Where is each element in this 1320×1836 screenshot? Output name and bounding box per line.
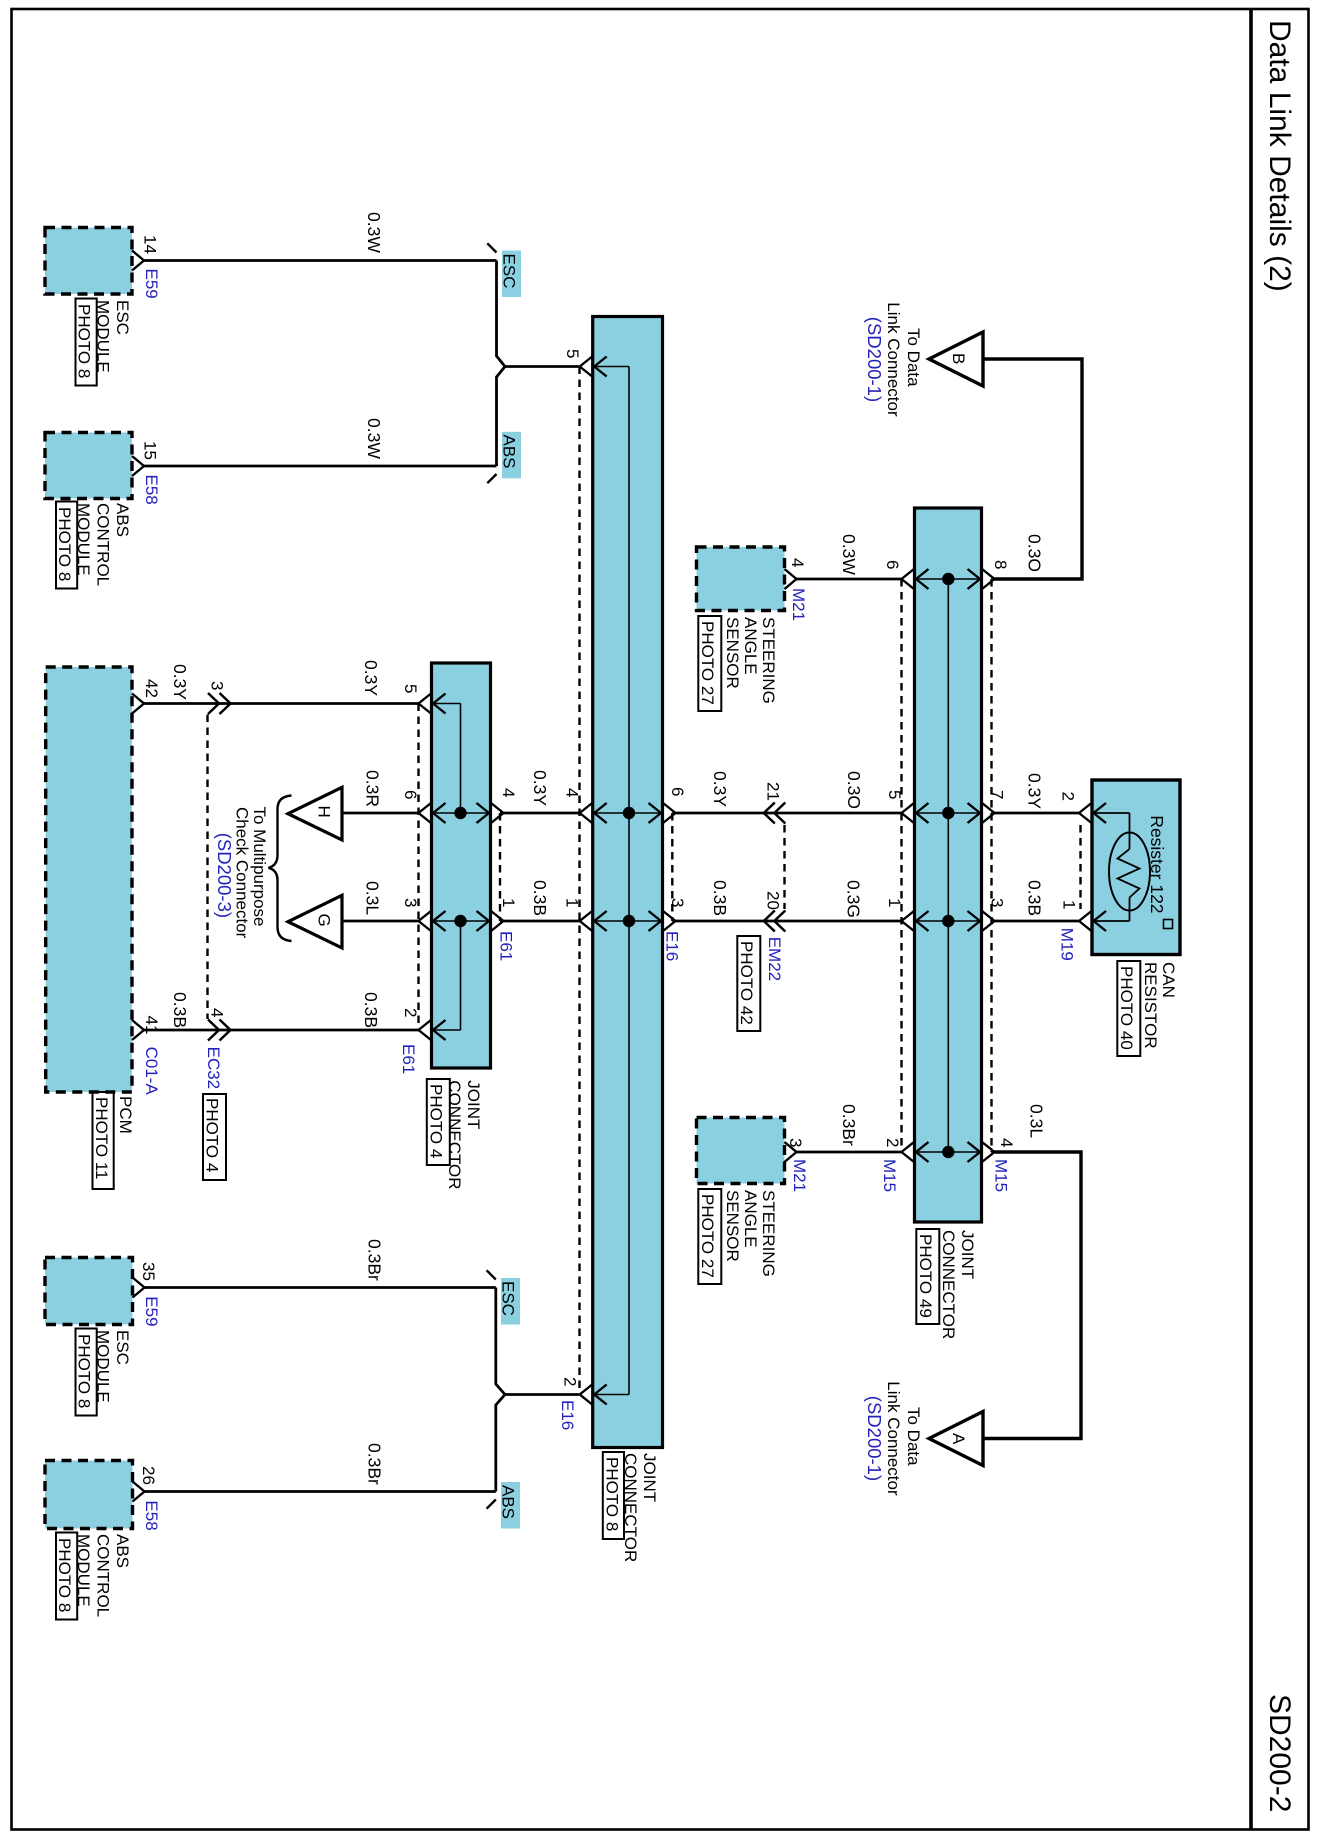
svg-text:ESC: ESC	[113, 1330, 132, 1365]
svg-text:0.3B: 0.3B	[710, 880, 730, 916]
svg-text:H: H	[315, 806, 334, 818]
svg-text:7: 7	[987, 790, 1006, 799]
wire 0.3L G to E61-3	[342, 920, 419, 923]
svg-text:4: 4	[207, 1008, 226, 1017]
pin 26 of E58	[133, 1482, 145, 1492]
svg-text:21: 21	[764, 782, 783, 801]
svg-text:15: 15	[140, 441, 159, 460]
svg-text:CAN: CAN	[1159, 962, 1178, 998]
svg-text:0.3L: 0.3L	[363, 881, 383, 915]
module E58 ABS CONTROL MODULE (bottom) dashed box	[45, 1461, 133, 1529]
svg-text:0.3Y: 0.3Y	[361, 660, 381, 696]
off-page triangle G	[288, 895, 342, 948]
M15 pin 3 terminal (right)	[968, 911, 981, 921]
svg-text:26: 26	[139, 1466, 158, 1485]
svg-text:STEERING: STEERING	[759, 1190, 778, 1277]
svg-text:ESC: ESC	[499, 1281, 518, 1316]
resistor symbol	[1094, 812, 1130, 814]
svg-text:PCM: PCM	[116, 1096, 135, 1134]
svg-text:2: 2	[561, 1377, 580, 1386]
M15 pin 8 terminal (right)	[968, 569, 981, 579]
E16 pin 4 terminal	[580, 803, 593, 813]
joint connector M15 body	[915, 508, 982, 1222]
M19 pin 1 terminal	[1079, 911, 1092, 921]
node label ESC (highlighted, bottom)	[501, 1278, 520, 1325]
svg-text:3: 3	[786, 1138, 805, 1147]
svg-text:CONNECTOR: CONNECTOR	[445, 1080, 464, 1189]
svg-text:ABS: ABS	[113, 1534, 132, 1568]
svg-text:0.3R: 0.3R	[363, 770, 383, 807]
svg-text:0.3Y: 0.3Y	[530, 770, 550, 806]
svg-text:8: 8	[991, 560, 1010, 569]
component M19 CAN RESISTOR box	[1092, 780, 1180, 955]
svg-text:A: A	[949, 1433, 968, 1445]
EC32 housing dashed line	[206, 715, 208, 1020]
module M21 STEERING ANGLE SENSOR (bottom) dashed box	[697, 1118, 785, 1184]
E16 pin 1 terminal	[580, 911, 593, 921]
in-line connector EM22 pin 20	[764, 911, 775, 922]
svg-text:6: 6	[668, 787, 687, 796]
M15 pin 7 terminal (right)	[968, 803, 981, 813]
svg-text:E16: E16	[558, 1400, 577, 1430]
svg-text:41: 41	[142, 1016, 161, 1035]
svg-text:B: B	[949, 353, 968, 364]
E61 pin 2 terminal	[419, 1020, 432, 1030]
pin 14 of E59	[132, 251, 144, 261]
svg-text:PHOTO 4: PHOTO 4	[427, 1084, 446, 1158]
svg-text:M19: M19	[1058, 928, 1077, 961]
svg-text:0.3W: 0.3W	[364, 212, 384, 253]
wire 0.3Y PCM-42 to EC32-3 to E61-5	[144, 702, 419, 705]
E16 pin 2 terminal	[580, 1385, 593, 1395]
node label ABS (highlighted)	[502, 432, 521, 479]
E61 pin 3 terminal	[419, 911, 432, 921]
off-page triangle B to Data Link Connector	[929, 332, 983, 386]
svg-text:PHOTO 4: PHOTO 4	[203, 1098, 222, 1172]
E61 pin 4 terminal (right)	[477, 803, 490, 813]
svg-text:2: 2	[401, 1008, 420, 1017]
svg-text:JOINT: JOINT	[640, 1453, 659, 1502]
pin 42 of PCM	[132, 694, 144, 704]
svg-text:4: 4	[788, 558, 807, 567]
svg-text:E61: E61	[497, 931, 516, 961]
svg-text:Resister 122: Resister 122	[1147, 815, 1167, 913]
svg-text:PHOTO 8: PHOTO 8	[55, 507, 74, 581]
svg-text:SD200-2: SD200-2	[1263, 1694, 1296, 1812]
wire 0.3R H to E61-6	[342, 812, 419, 815]
svg-text:To Multipurpose: To Multipurpose	[250, 807, 269, 927]
wire 0.3L M15-4 down to triangle A	[983, 1152, 1081, 1439]
svg-text:ANGLE: ANGLE	[741, 1190, 760, 1248]
wire 0.3Y E61-4 to E16-4	[500, 812, 580, 815]
svg-text:SENSOR: SENSOR	[723, 1190, 742, 1262]
svg-text:RESISTOR: RESISTOR	[1141, 962, 1160, 1049]
svg-text:C01-A: C01-A	[142, 1047, 161, 1096]
M15 pin 5 terminal	[902, 803, 915, 813]
svg-text:0.3Y: 0.3Y	[1025, 773, 1045, 809]
svg-text:Link Connector: Link Connector	[884, 1381, 903, 1496]
pin 4 of M21	[785, 569, 797, 579]
svg-text:0.3G: 0.3G	[844, 880, 864, 918]
svg-text:EM22: EM22	[765, 937, 784, 981]
wire 0.3Y M15-7 to M19-2	[991, 812, 1079, 815]
svg-text:E58: E58	[142, 1500, 161, 1530]
svg-text:ESC: ESC	[113, 300, 132, 335]
svg-text:0.3Y: 0.3Y	[710, 771, 730, 807]
EM22 housing dashed line	[783, 825, 785, 909]
svg-text:CONTROL: CONTROL	[93, 1534, 112, 1617]
svg-text:JOINT: JOINT	[464, 1080, 483, 1129]
svg-text:0.3Br: 0.3Br	[365, 1443, 385, 1485]
svg-text:0.3O: 0.3O	[844, 771, 864, 809]
svg-text:E59: E59	[142, 1296, 161, 1326]
off-page triangle A to Data Link Connector	[929, 1412, 983, 1466]
svg-text:3: 3	[987, 898, 1006, 907]
in-line connector EC32 pin 4	[208, 1020, 219, 1031]
svg-text:0.3W: 0.3W	[839, 534, 859, 575]
module E59 ESC MODULE (bottom) dashed box	[45, 1258, 133, 1325]
svg-text:0.3Br: 0.3Br	[839, 1104, 859, 1146]
svg-text:5: 5	[401, 684, 420, 693]
svg-text:6: 6	[883, 560, 902, 569]
svg-text:35: 35	[139, 1262, 158, 1281]
svg-text:0.3W: 0.3W	[364, 418, 384, 459]
pin 35 of E59	[133, 1278, 145, 1288]
svg-text:(SD200-3): (SD200-3)	[214, 833, 235, 918]
M19 housing dashed line	[1079, 825, 1081, 909]
svg-text:PHOTO 27: PHOTO 27	[698, 621, 717, 705]
svg-text:(SD200-1): (SD200-1)	[864, 317, 885, 402]
E16 junction dots	[623, 807, 635, 819]
pin 15 of E58	[132, 456, 144, 466]
svg-text:STEERING: STEERING	[759, 617, 778, 704]
svg-text:3: 3	[668, 898, 687, 907]
svg-text:1: 1	[1059, 900, 1078, 909]
joint connector E61 body	[432, 663, 491, 1068]
off-page triangle H	[288, 787, 342, 840]
M19 pin 2 terminal	[1079, 803, 1092, 813]
pin 41 of PCM	[132, 1020, 144, 1030]
brace	[269, 796, 292, 942]
E61 pin 6 terminal	[419, 803, 432, 813]
svg-text:PHOTO 49: PHOTO 49	[916, 1234, 935, 1318]
svg-text:0.3B: 0.3B	[170, 992, 190, 1028]
wire 0.3Br E58-26 to ABS	[145, 1490, 496, 1493]
E61 pin 1 terminal (right)	[477, 911, 490, 921]
svg-text:20: 20	[764, 891, 783, 910]
E16 pin 6 terminal (right)	[649, 803, 662, 813]
wire 0.3Br M21-3 to M15-2	[797, 1151, 902, 1154]
E61 junction dots	[454, 807, 466, 819]
svg-text:To Data: To Data	[904, 1407, 923, 1466]
module C01-A PCM dashed box	[46, 667, 132, 1092]
svg-text:PHOTO 42: PHOTO 42	[737, 941, 756, 1025]
svg-text:4: 4	[499, 788, 518, 797]
svg-text:0.3O: 0.3O	[1025, 534, 1045, 572]
svg-text:To Data: To Data	[904, 328, 923, 387]
wire 0.3B M15-3 to M19-1	[991, 920, 1079, 923]
svg-text:0.3B: 0.3B	[1025, 880, 1045, 916]
svg-text:M21: M21	[789, 588, 808, 621]
wire 0.3B E16-3 to EM22-20 to M15-1	[672, 920, 901, 923]
svg-text:M21: M21	[790, 1159, 809, 1192]
svg-text:0.3B: 0.3B	[530, 880, 550, 916]
svg-text:(SD200-1): (SD200-1)	[864, 1396, 885, 1481]
module M21 STEERING ANGLE SENSOR (top) dashed box	[697, 547, 785, 611]
in-line connector EC32 pin 3	[208, 693, 219, 704]
svg-text:0.3Br: 0.3Br	[365, 1239, 385, 1281]
svg-text:PHOTO 40: PHOTO 40	[1117, 966, 1136, 1050]
svg-text:CONTROL: CONTROL	[93, 503, 112, 586]
svg-text:ABS: ABS	[500, 435, 519, 469]
svg-text:3: 3	[207, 681, 226, 690]
wire merge from ESC/ABS into E16 pin 2	[496, 1288, 579, 1395]
wire merge from ESC/ABS into E16 pin 5	[497, 261, 580, 367]
E16 pin 5 terminal	[580, 357, 593, 367]
wire 0.3B PCM-41 to EC32-4 to E61-2	[144, 1029, 419, 1032]
node label ABS (highlighted, bottom)	[501, 1482, 520, 1529]
svg-text:M15: M15	[991, 1159, 1010, 1192]
svg-text:PHOTO 8: PHOTO 8	[603, 1457, 622, 1531]
tick at ESC ref (bottom)	[487, 1270, 496, 1279]
svg-text:EC32: EC32	[204, 1047, 223, 1090]
wire 0.3W M21-4 to M15-6	[797, 578, 902, 581]
pin 3 of M21	[785, 1142, 797, 1152]
svg-text:3: 3	[401, 898, 420, 907]
svg-text:4: 4	[997, 1138, 1016, 1147]
wire 0.3O M15-8 up to triangle B	[983, 359, 1082, 579]
svg-text:PHOTO 8: PHOTO 8	[75, 304, 94, 378]
svg-text:14: 14	[140, 235, 159, 254]
svg-text:E59: E59	[142, 269, 161, 299]
joint connector E16 body	[593, 317, 663, 1448]
svg-text:E61: E61	[399, 1044, 418, 1074]
E61 housing dashed lines	[417, 704, 419, 1031]
M15 pin 1 terminal	[902, 911, 915, 921]
module E58 ABS CONTROL MODULE (top) dashed box	[45, 433, 132, 499]
M15 pin 2 terminal	[902, 1142, 915, 1152]
title strip divider	[1249, 9, 1253, 1830]
wire 0.3B E61-1 to E16-1	[500, 920, 580, 923]
wire 0.3Y E16-6 to EM22-21 to M15-5	[672, 812, 901, 815]
wire 0.3W from E58-15 to ABS	[144, 465, 497, 468]
svg-text:Data Link Details (2): Data Link Details (2)	[1263, 20, 1296, 292]
svg-text:2: 2	[883, 1138, 902, 1147]
svg-text:0.3L: 0.3L	[1027, 1104, 1047, 1138]
svg-text:PHOTO 8: PHOTO 8	[75, 1334, 94, 1408]
E61 internal links	[433, 703, 461, 705]
svg-text:5: 5	[563, 349, 582, 358]
wire 0.3Br E59-35 to ESC	[145, 1286, 496, 1289]
svg-text:PHOTO 27: PHOTO 27	[698, 1194, 717, 1278]
svg-text:1: 1	[499, 898, 518, 907]
svg-text:PHOTO 8: PHOTO 8	[55, 1538, 74, 1612]
M15 pin 4 terminal (right)	[968, 1142, 981, 1152]
svg-text:PHOTO 11: PHOTO 11	[92, 1097, 111, 1180]
svg-text:CONNECTOR: CONNECTOR	[939, 1230, 958, 1339]
svg-text:2: 2	[1058, 792, 1077, 801]
module E59 ESC MODULE (top) dashed box	[45, 228, 132, 295]
svg-text:ESC: ESC	[500, 254, 519, 289]
tick at ESC ref	[487, 243, 496, 252]
tick at ABS ref	[487, 474, 496, 483]
E16 housing dashed lines	[578, 367, 580, 1395]
E16 internal links	[594, 366, 629, 368]
tick at ABS ref (bottom)	[487, 1500, 496, 1509]
svg-text:ABS: ABS	[499, 1485, 518, 1519]
svg-text:42: 42	[142, 679, 161, 698]
svg-text:M15: M15	[880, 1159, 899, 1192]
M15 pin 6 terminal	[902, 569, 915, 579]
svg-text:0.3Y: 0.3Y	[170, 664, 190, 700]
M15 junction dots	[942, 573, 954, 585]
svg-text:ANGLE: ANGLE	[741, 617, 760, 675]
svg-text:Link Connector: Link Connector	[884, 302, 903, 417]
M15 internal links	[947, 579, 949, 1152]
svg-text:ABS: ABS	[113, 503, 132, 537]
svg-text:JOINT: JOINT	[958, 1230, 977, 1279]
svg-text:SENSOR: SENSOR	[723, 617, 742, 689]
in-line connector EM22 pin 21	[764, 803, 775, 814]
svg-text:0.3B: 0.3B	[361, 992, 381, 1028]
svg-text:6: 6	[401, 790, 420, 799]
wire 0.3W from E59-14 to ESC	[144, 259, 497, 262]
node label ESC (highlighted)	[502, 251, 521, 298]
svg-text:E58: E58	[142, 475, 161, 505]
svg-text:G: G	[315, 914, 334, 927]
M15 housing dashed lines	[900, 579, 902, 1152]
E16 pin 3 terminal (right)	[649, 911, 662, 921]
E61 pin 5 terminal	[419, 694, 432, 704]
svg-text:E16: E16	[663, 931, 682, 961]
